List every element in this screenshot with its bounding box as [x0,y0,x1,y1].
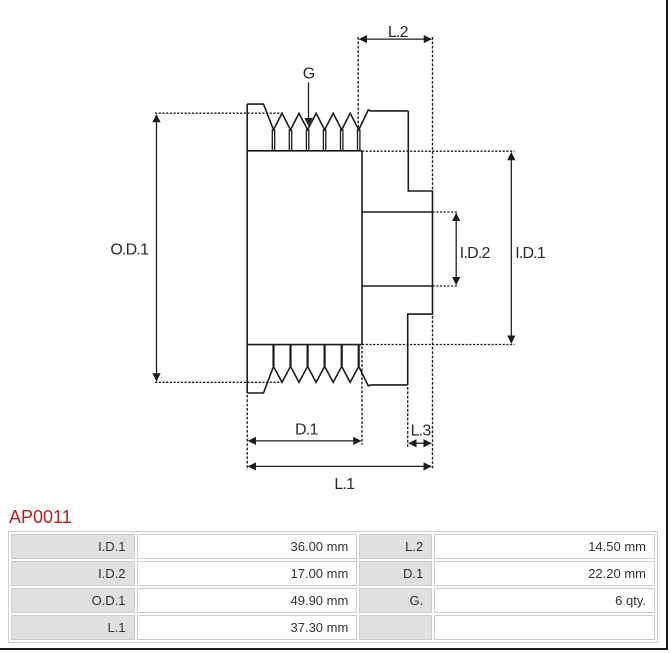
dimension arrow L.1 [248,465,431,467]
extension line D.1 right [361,347,363,445]
hub bore top wall [362,211,433,213]
top rib baseline [247,150,362,152]
pulley body right face [361,151,363,345]
bottom frame rule [0,648,668,650]
reference dotted O.D.1 top [155,112,282,114]
extension line L.3 left [407,387,409,448]
bottom rib profile zigzag [247,366,408,393]
svg-text:O.D.1: O.D.1 [110,241,149,258]
top rib groove slots [272,129,360,150]
part number heading [9,507,72,528]
dimensions table [8,531,658,643]
reference dotted O.D.1 bottom [155,381,282,383]
extension line L.2 left [357,37,359,128]
dimension arrow D.1 [248,440,360,442]
reference dotted I.D.1 top [362,150,515,152]
svg-text:L.2: L.2 [388,24,409,41]
svg-text:D.1: D.1 [295,422,318,439]
top rib profile zigzag [247,104,408,130]
dimension arrow O.D.1 [156,115,158,381]
dimension arrow I.D.2 [455,213,457,284]
hub bore bottom wall [362,285,433,287]
pulley body left face [246,104,248,393]
reference dotted I.D.2 top [433,211,459,213]
dimension arrow L.2 [359,38,431,40]
reference dotted I.D.1 bottom [362,344,515,346]
extension line L.1 right lower [432,316,434,470]
svg-text:I.D.2: I.D.2 [460,245,491,262]
svg-text:G: G [303,66,315,83]
hub outline right side [408,111,433,385]
bottom rib groove slots [274,345,359,367]
svg-text:L.3: L.3 [411,423,432,440]
dimension arrow I.D.1 [510,153,512,344]
reference dotted I.D.2 bottom [433,285,459,287]
bottom rib baseline [247,344,362,346]
leader arrow G [308,82,310,125]
extension line D.1 / L.1 left [246,395,248,470]
extension line L.2 / L.1 right upper [432,37,434,190]
right frame rule [666,0,668,650]
svg-text:L.1: L.1 [334,476,355,493]
dimension arrow L.3 [409,442,431,444]
svg-text:I.D.1: I.D.1 [515,245,546,262]
